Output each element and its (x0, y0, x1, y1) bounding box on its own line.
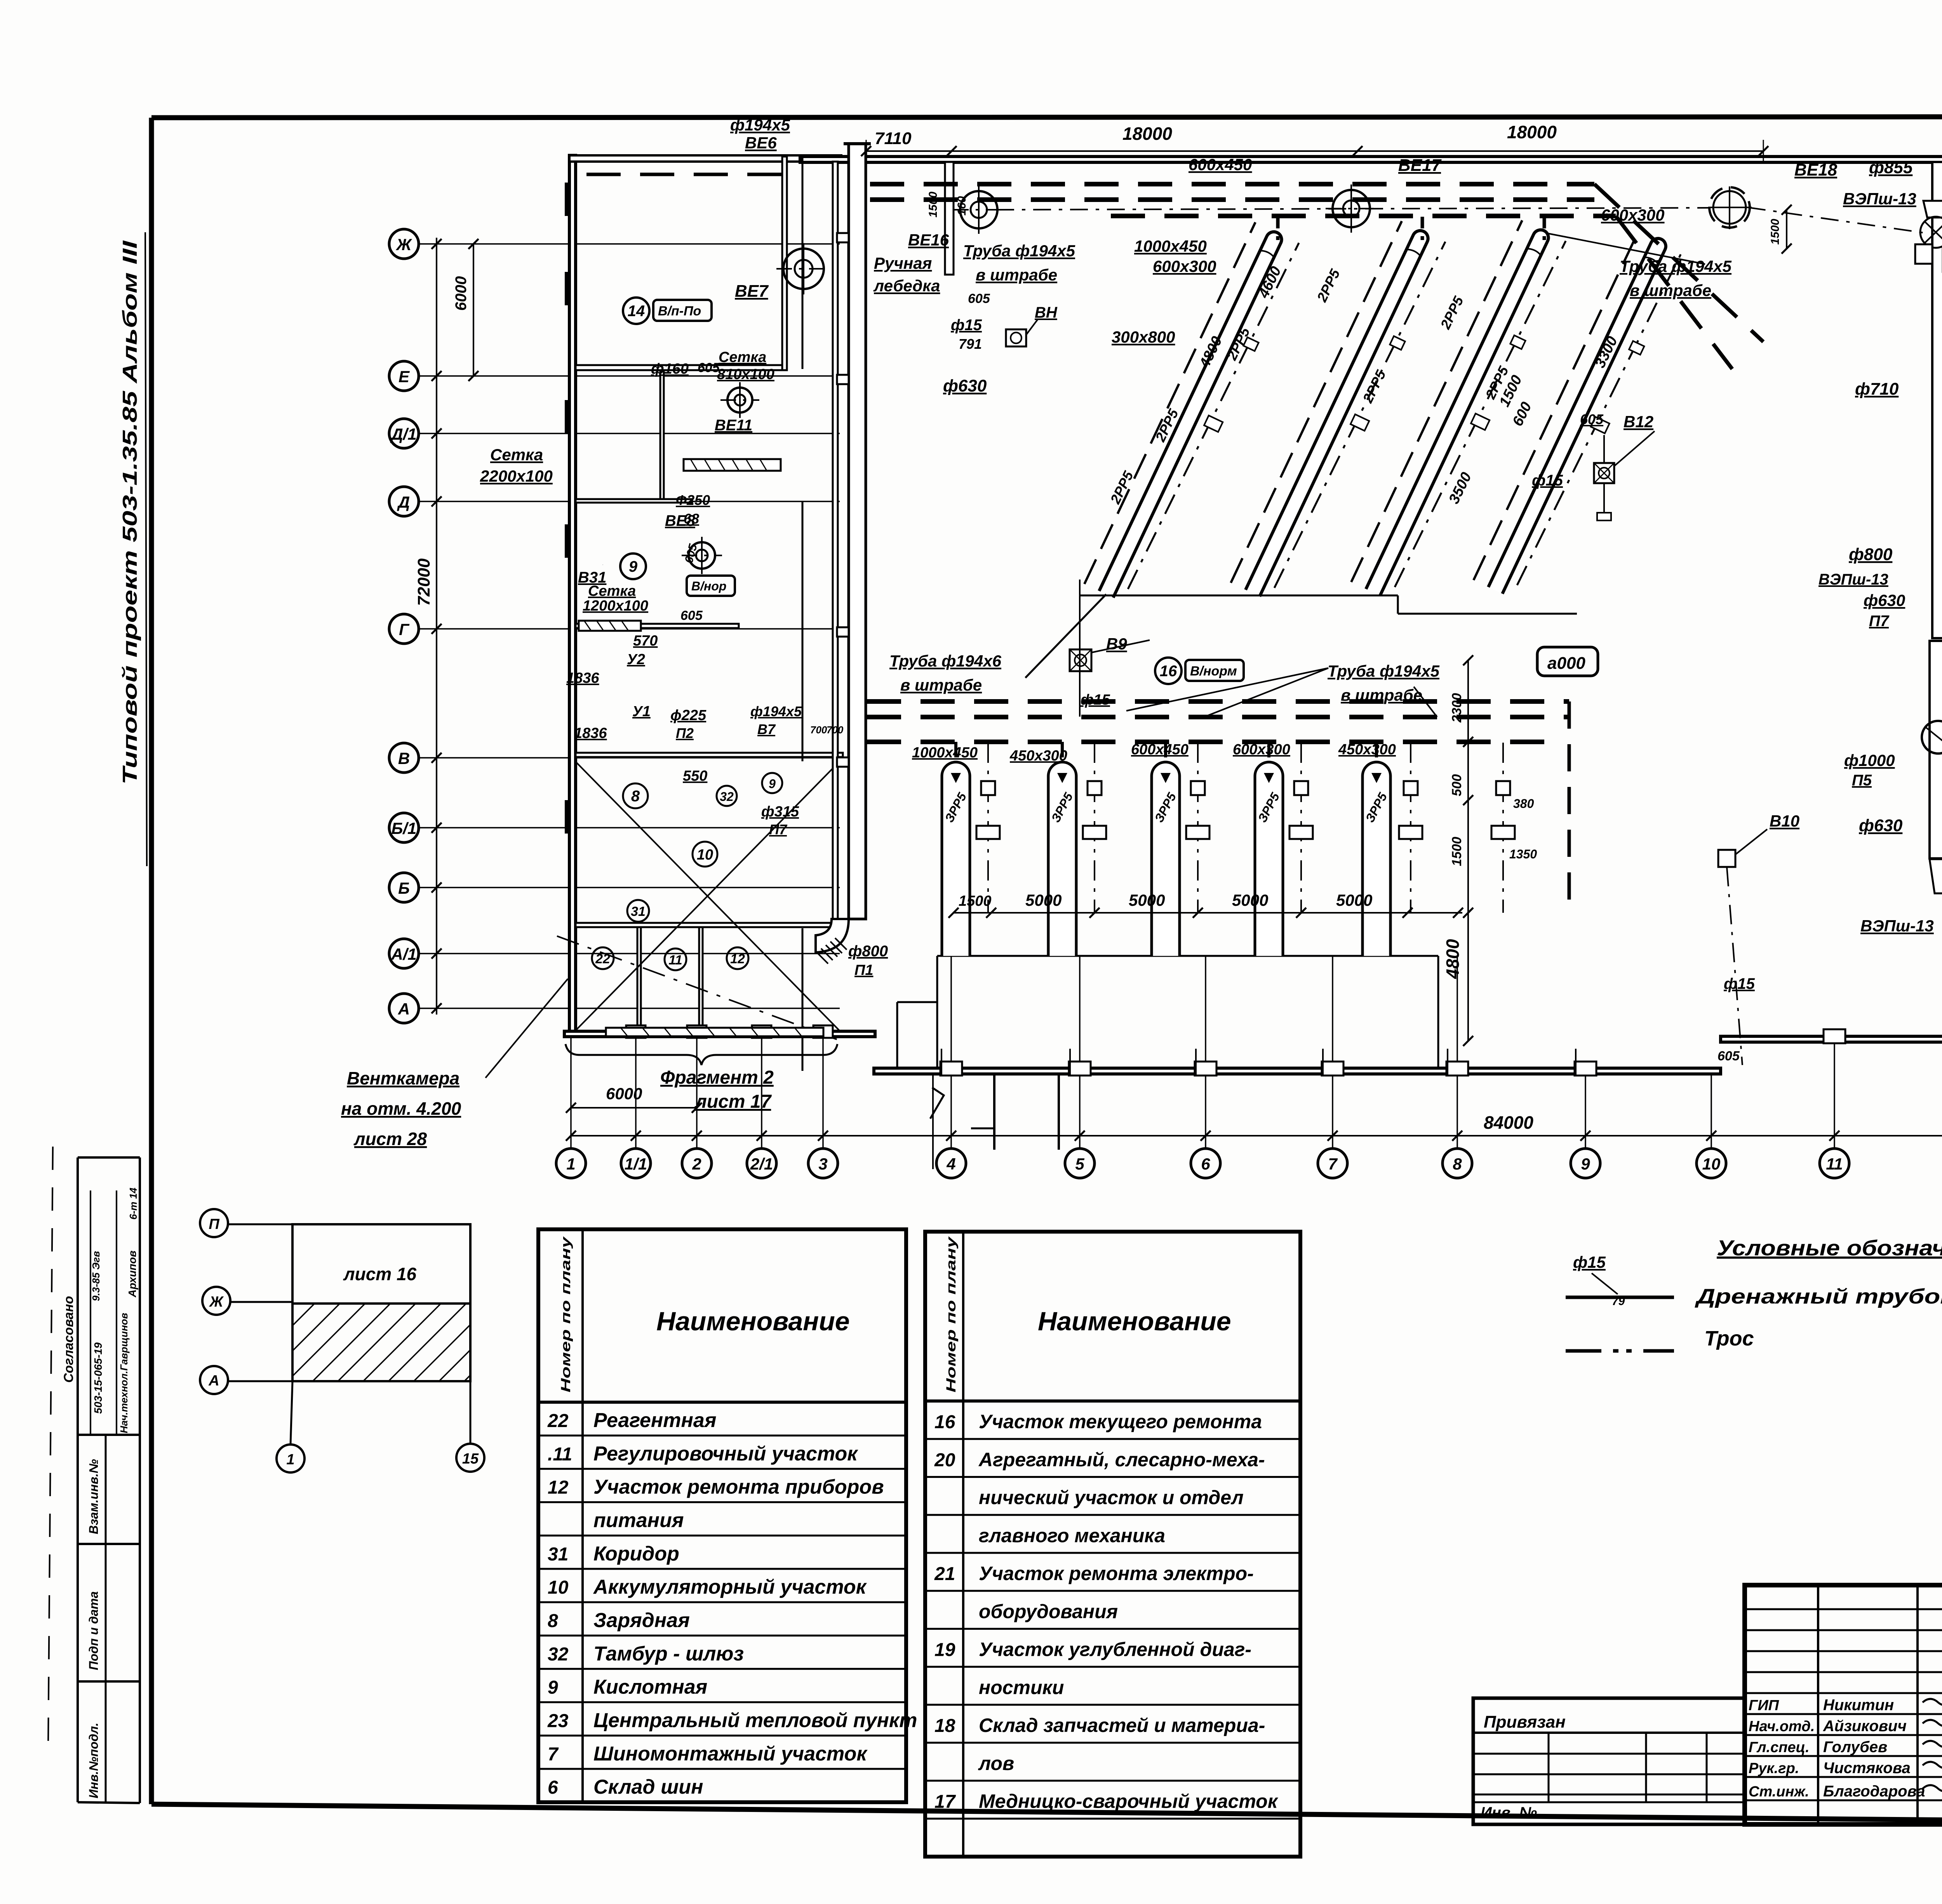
svg-text:550: 550 (683, 768, 707, 784)
svg-text:ф194x5: ф194x5 (730, 116, 790, 134)
svg-text:810x100: 810x100 (717, 366, 774, 383)
svg-text:ВЕ16: ВЕ16 (908, 231, 949, 249)
svg-text:Венткамера: Венткамера (347, 1068, 459, 1088)
svg-text:Чистякова: Чистякова (1823, 1760, 1911, 1777)
svg-text:Е: Е (398, 367, 410, 386)
svg-text:У2: У2 (627, 651, 645, 668)
svg-text:1: 1 (566, 1155, 575, 1173)
svg-text:1350: 1350 (1509, 847, 1537, 861)
svg-text:1/1: 1/1 (625, 1155, 647, 1173)
svg-text:8: 8 (548, 1611, 558, 1631)
svg-text:ф630: ф630 (943, 376, 987, 395)
svg-text:4: 4 (946, 1155, 955, 1173)
svg-text:А/1: А/1 (391, 945, 416, 963)
svg-text:Дренажный трубопровод: Дренажный трубопровод (1695, 1285, 1942, 1308)
svg-text:5: 5 (1075, 1155, 1084, 1173)
svg-text:32: 32 (720, 790, 734, 804)
svg-text:18: 18 (934, 1716, 955, 1736)
svg-text:1: 1 (286, 1451, 294, 1468)
svg-text:605: 605 (1718, 1049, 1740, 1063)
svg-text:600x300: 600x300 (1153, 257, 1216, 275)
svg-text:лов: лов (978, 1753, 1014, 1774)
svg-text:Гл.спец.: Гл.спец. (1749, 1739, 1810, 1756)
svg-text:ф630: ф630 (1859, 816, 1903, 835)
svg-text:П2: П2 (676, 725, 694, 741)
svg-text:лист 17: лист 17 (694, 1091, 772, 1112)
svg-text:питания: питания (593, 1509, 684, 1532)
svg-text:в штрабе: в штрабе (976, 266, 1057, 284)
svg-text:В12: В12 (1624, 412, 1653, 431)
svg-text:А: А (398, 1000, 410, 1018)
svg-text:1200x100: 1200x100 (583, 598, 648, 614)
svg-text:Труба ф194x6: Труба ф194x6 (889, 652, 1002, 670)
svg-text:605: 605 (680, 608, 703, 623)
svg-text:ф315: ф315 (761, 804, 799, 820)
svg-text:ϕ225: ϕ225 (670, 707, 706, 724)
svg-text:Д/1: Д/1 (390, 425, 416, 443)
svg-text:нический участок и отдел: нический участок и отдел (979, 1487, 1244, 1509)
svg-text:лебедка: лебедка (873, 277, 940, 295)
svg-text:Участок ремонта приборов: Участок ремонта приборов (593, 1476, 884, 1498)
svg-text:Сетка: Сетка (719, 349, 766, 365)
svg-text:У1: У1 (632, 703, 651, 720)
svg-text:П: П (209, 1216, 219, 1232)
svg-text:Нач.технол.Гаврщинов: Нач.технол.Гаврщинов (118, 1313, 130, 1433)
svg-text:Сетка: Сетка (490, 446, 543, 464)
svg-text:Архипов: Архипов (126, 1250, 138, 1298)
svg-text:Зарядная: Зарядная (593, 1609, 690, 1632)
svg-text:14: 14 (628, 303, 645, 320)
svg-text:В10: В10 (1770, 812, 1799, 830)
svg-text:В/п-По: В/п-По (658, 304, 701, 318)
svg-text:ВЕ7: ВЕ7 (735, 282, 769, 301)
svg-text:11: 11 (1826, 1155, 1843, 1173)
svg-text:2300: 2300 (1450, 693, 1464, 723)
svg-text:ф160: ф160 (651, 361, 689, 377)
svg-text:11: 11 (668, 953, 682, 968)
svg-text:10: 10 (548, 1577, 569, 1598)
svg-text:450x300: 450x300 (1009, 748, 1067, 764)
svg-text:ВЭПш-13: ВЭПш-13 (1843, 190, 1916, 208)
svg-text:Регулировочный участок: Регулировочный участок (593, 1443, 858, 1465)
svg-text:Номер по плану: Номер по плану (559, 1236, 573, 1392)
svg-text:22: 22 (547, 1411, 569, 1431)
svg-text:1000x450: 1000x450 (1134, 237, 1207, 255)
svg-text:16: 16 (1160, 663, 1177, 680)
svg-text:.11: .11 (548, 1444, 572, 1465)
svg-text:П5: П5 (1852, 772, 1872, 789)
svg-text:Привязан: Привязан (1484, 1713, 1566, 1732)
svg-text:Фрагмент 2: Фрагмент 2 (660, 1067, 774, 1088)
svg-text:Номер по плану: Номер по плану (944, 1236, 959, 1392)
svg-text:ф800: ф800 (1849, 545, 1893, 564)
svg-text:5000: 5000 (1025, 891, 1061, 909)
svg-text:Согласовано: Согласовано (61, 1296, 76, 1383)
svg-text:Агрегатный, слесарно-меха-: Агрегатный, слесарно-меха- (978, 1449, 1265, 1471)
svg-text:2: 2 (692, 1155, 701, 1173)
svg-text:12: 12 (730, 952, 745, 966)
svg-text:3: 3 (818, 1155, 827, 1173)
svg-text:380: 380 (1513, 797, 1534, 811)
svg-text:Б/1: Б/1 (392, 819, 417, 837)
svg-text:600x300: 600x300 (1233, 741, 1290, 758)
svg-text:Центральный тепловой пункт: Центральный тепловой пункт (593, 1709, 917, 1732)
svg-text:600x300: 600x300 (1601, 206, 1665, 224)
svg-text:ф15: ф15 (1724, 975, 1755, 992)
svg-text:ВЕ11: ВЕ11 (715, 417, 752, 434)
svg-text:300x800: 300x800 (1112, 328, 1175, 346)
svg-text:605: 605 (968, 291, 990, 306)
svg-text:79: 79 (1612, 1295, 1625, 1308)
svg-text:Наименование: Наименование (1038, 1307, 1231, 1336)
svg-text:12: 12 (548, 1478, 569, 1498)
svg-text:Аккумуляторный участок: Аккумуляторный участок (593, 1576, 867, 1598)
svg-text:605: 605 (698, 360, 720, 375)
svg-text:ф15: ф15 (951, 317, 982, 334)
svg-text:1500: 1500 (959, 893, 992, 909)
svg-text:22: 22 (595, 952, 610, 966)
svg-text:Подп и дата: Подп и дата (87, 1591, 101, 1670)
svg-text:Труба ф194x5: Труба ф194x5 (963, 242, 1075, 260)
svg-text:23: 23 (547, 1711, 569, 1732)
svg-text:1000x450: 1000x450 (912, 745, 978, 761)
svg-text:84000: 84000 (1484, 1112, 1533, 1133)
svg-text:2/1: 2/1 (750, 1155, 773, 1173)
svg-text:8: 8 (1453, 1155, 1462, 1173)
svg-text:20: 20 (934, 1450, 955, 1471)
svg-text:В7: В7 (757, 721, 776, 737)
svg-text:Коридор: Коридор (593, 1542, 679, 1565)
svg-text:6: 6 (1201, 1155, 1210, 1173)
svg-text:7110: 7110 (875, 129, 912, 148)
svg-text:1836: 1836 (574, 725, 607, 741)
svg-text:21: 21 (934, 1564, 955, 1584)
svg-text:В/норм: В/норм (1190, 664, 1237, 679)
svg-text:Ручная: Ручная (874, 254, 932, 272)
svg-text:Типовой проект 503-1.35.85: Типовой проект 503-1.35.85 Альбом III (119, 240, 141, 785)
svg-text:Сетка: Сетка (588, 583, 636, 599)
svg-text:18000: 18000 (1507, 122, 1557, 142)
svg-text:Ж: Ж (396, 235, 412, 254)
svg-text:Г: Г (399, 620, 410, 639)
svg-text:8: 8 (631, 788, 640, 805)
svg-text:лист 16: лист 16 (343, 1264, 417, 1284)
svg-text:5000: 5000 (1232, 891, 1268, 909)
svg-text:ф15: ф15 (1573, 1253, 1606, 1271)
svg-text:главного механика: главного механика (979, 1525, 1165, 1546)
svg-text:Нач.отд.: Нач.отд. (1749, 1718, 1815, 1735)
svg-text:ф710: ф710 (1855, 379, 1899, 399)
svg-text:15: 15 (462, 1451, 479, 1467)
svg-text:ВЕ6: ВЕ6 (745, 134, 777, 152)
svg-text:Трос: Трос (1704, 1327, 1754, 1350)
svg-text:Кислотная: Кислотная (593, 1676, 707, 1699)
svg-text:Наименование: Наименование (656, 1307, 850, 1336)
svg-text:Участок текущего ремонта: Участок текущего ремонта (979, 1411, 1262, 1432)
svg-text:в штрабе: в штрабе (1341, 686, 1422, 704)
svg-text:Труба ф194x5: Труба ф194x5 (1620, 257, 1732, 275)
svg-text:700: 700 (827, 724, 844, 736)
svg-text:500: 500 (1450, 774, 1464, 796)
svg-text:Никитин: Никитин (1823, 1697, 1894, 1714)
svg-text:в штрабе: в штрабе (900, 676, 982, 694)
svg-text:ф15: ф15 (1081, 692, 1110, 708)
svg-text:31: 31 (548, 1544, 568, 1565)
svg-text:ВЕ18: ВЕ18 (1794, 160, 1838, 179)
svg-text:1500: 1500 (927, 191, 940, 218)
svg-text:Голубев: Голубев (1823, 1739, 1887, 1756)
svg-text:ностики: ностики (979, 1676, 1064, 1698)
svg-text:П1: П1 (854, 962, 873, 978)
svg-text:Участок ремонта электро-: Участок ремонта электро- (979, 1563, 1254, 1584)
svg-text:600x450: 600x450 (1189, 155, 1252, 174)
svg-text:лист 28: лист 28 (353, 1129, 427, 1149)
svg-text:9: 9 (769, 777, 776, 791)
svg-text:ГИП: ГИП (1749, 1697, 1779, 1714)
svg-text:ВЭПш-13: ВЭПш-13 (1818, 571, 1888, 588)
svg-text:оборудования: оборудования (979, 1601, 1118, 1622)
svg-text:4800: 4800 (1443, 939, 1463, 979)
svg-text:Медницко-сварочный участок: Медницко-сварочный участок (979, 1791, 1279, 1812)
svg-text:1500: 1500 (1769, 219, 1782, 245)
svg-text:9: 9 (1581, 1155, 1590, 1173)
svg-text:Рук.гр.: Рук.гр. (1749, 1760, 1799, 1777)
svg-text:7: 7 (548, 1744, 559, 1765)
svg-text:П7: П7 (1869, 613, 1890, 630)
svg-text:Айзикович: Айзикович (1823, 1718, 1907, 1735)
svg-text:1500: 1500 (1450, 837, 1464, 866)
svg-text:ВЕ17: ВЕ17 (1398, 156, 1442, 175)
svg-text:700: 700 (810, 724, 827, 736)
svg-text:10: 10 (1702, 1155, 1721, 1173)
svg-text:П7: П7 (769, 821, 788, 837)
svg-text:Инв.№подл.: Инв.№подл. (87, 1723, 101, 1798)
svg-text:Ст.инж.: Ст.инж. (1749, 1784, 1809, 1800)
svg-text:ф855: ф855 (1869, 158, 1913, 177)
svg-text:32: 32 (548, 1644, 569, 1665)
svg-text:6000: 6000 (606, 1084, 642, 1103)
svg-text:605: 605 (1580, 411, 1604, 427)
svg-text:9: 9 (548, 1678, 558, 1698)
svg-text:6: 6 (548, 1777, 558, 1798)
svg-text:Склад запчастей и материа-: Склад запчастей и материа- (979, 1714, 1265, 1736)
svg-text:17: 17 (934, 1792, 956, 1812)
svg-text:9: 9 (629, 558, 638, 575)
svg-text:10: 10 (697, 847, 713, 863)
svg-text:9.3-85 Эгв: 9.3-85 Эгв (90, 1251, 102, 1301)
svg-text:19: 19 (934, 1640, 955, 1660)
svg-text:ф15: ф15 (1532, 472, 1563, 489)
svg-text:18000: 18000 (1122, 124, 1172, 144)
svg-text:а000: а000 (1547, 654, 1585, 673)
svg-text:ф630: ф630 (1864, 591, 1905, 609)
svg-text:ВЭПш-13: ВЭПш-13 (1860, 917, 1934, 935)
svg-text:1836: 1836 (566, 670, 599, 686)
svg-text:Тамбур - шлюз: Тамбур - шлюз (593, 1643, 744, 1665)
svg-text:В: В (398, 749, 410, 768)
svg-text:Участок углубленной диаг-: Участок углубленной диаг- (979, 1639, 1251, 1660)
svg-text:В9: В9 (1106, 635, 1127, 653)
svg-text:Шиномонтажный участок: Шиномонтажный участок (593, 1742, 868, 1765)
svg-text:в штрабе: в штрабе (1630, 281, 1711, 299)
svg-text:Ф250: Ф250 (676, 492, 710, 508)
svg-text:68: 68 (684, 511, 699, 527)
svg-text:ф1000: ф1000 (1844, 751, 1895, 769)
svg-text:6000: 6000 (452, 276, 470, 311)
svg-text:Условные обозначения: Условные обозначения (1717, 1236, 1942, 1260)
svg-text:Взам.инв.№: Взам.инв.№ (87, 1459, 101, 1534)
svg-text:570: 570 (633, 633, 658, 649)
svg-text:5000: 5000 (1129, 891, 1165, 909)
svg-text:Д: Д (397, 493, 410, 511)
svg-text:В/нор: В/нор (691, 579, 726, 593)
svg-text:31: 31 (631, 904, 646, 919)
svg-text:Благодарова: Благодарова (1823, 1783, 1925, 1800)
svg-text:Труба ф194x5: Труба ф194x5 (1328, 662, 1440, 680)
svg-text:Склад шин: Склад шин (593, 1776, 703, 1798)
svg-text:на отм. 4.200: на отм. 4.200 (341, 1098, 461, 1119)
svg-text:16: 16 (934, 1412, 955, 1432)
svg-text:5000: 5000 (1336, 891, 1372, 909)
svg-text:Реагентная: Реагентная (593, 1409, 716, 1432)
svg-text:7: 7 (1328, 1155, 1338, 1173)
svg-text:2200x100: 2200x100 (480, 467, 553, 485)
svg-text:ф194x5: ф194x5 (750, 703, 802, 719)
svg-text:503-15-065-19: 503-15-065-19 (92, 1342, 104, 1414)
svg-text:Инв. №: Инв. № (1481, 1804, 1537, 1821)
svg-text:6-т 14: 6-т 14 (127, 1187, 139, 1220)
svg-text:Б: Б (398, 879, 410, 897)
svg-text:791: 791 (959, 336, 982, 352)
svg-text:600x450: 600x450 (1131, 741, 1189, 758)
svg-text:450x300: 450x300 (1338, 741, 1396, 758)
svg-text:А: А (208, 1373, 219, 1389)
svg-text:Ж: Ж (209, 1294, 224, 1310)
svg-text:ф800: ф800 (848, 943, 888, 960)
svg-text:72000: 72000 (414, 558, 433, 606)
svg-text:ВН: ВН (1035, 304, 1058, 321)
